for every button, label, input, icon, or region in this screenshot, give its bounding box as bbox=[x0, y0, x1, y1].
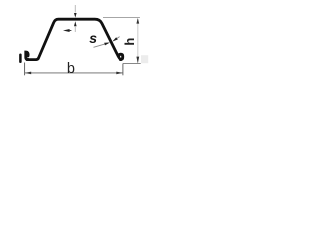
b extension line left bbox=[24, 63, 26, 76]
stray left arrow below flange bbox=[63, 29, 70, 32]
b arrow right bbox=[116, 72, 122, 75]
h extension line bottom bbox=[123, 63, 141, 65]
background bbox=[0, 0, 165, 100]
b extension line right bbox=[122, 64, 124, 76]
b dimension line bbox=[25, 72, 123, 74]
h arrow down bbox=[136, 57, 139, 64]
thickness dim line upper (light) bbox=[74, 5, 76, 13]
left lip curl bbox=[26, 52, 28, 59]
thickness dim arrow up bbox=[74, 21, 77, 26]
s leader line bbox=[94, 43, 109, 47]
h dimension line bbox=[137, 19, 139, 63]
profile outline (sheet cross-section) bbox=[27, 19, 121, 59]
thickness dim line lower (light) bbox=[74, 26, 76, 32]
h extension line top bbox=[103, 17, 140, 19]
gray box artifact right of h dimension bbox=[141, 55, 148, 63]
svg-text:s: s bbox=[89, 30, 97, 46]
left edge bar of profile bbox=[19, 55, 22, 62]
svg-text:h: h bbox=[122, 38, 137, 46]
thickness dim arrow down bbox=[74, 13, 77, 18]
b arrow left bbox=[25, 72, 31, 75]
right lip curl bbox=[119, 54, 123, 59]
s leader arrows at slope bbox=[104, 43, 110, 46]
h arrow up bbox=[136, 18, 139, 24]
svg-text:b: b bbox=[67, 61, 75, 77]
